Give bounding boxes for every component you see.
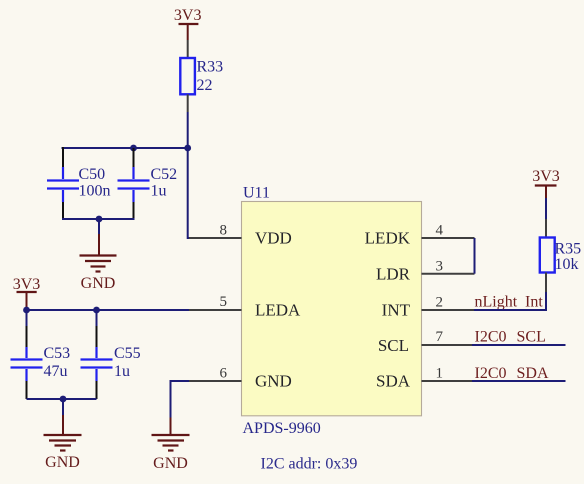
pin 4 LEDK line <box>422 237 475 239</box>
svg-text:5: 5 <box>220 294 228 310</box>
svg-text:SCL: SCL <box>517 329 546 346</box>
svg-text:7: 7 <box>436 329 444 345</box>
svg-text:APDS-9960: APDS-9960 <box>243 420 321 437</box>
svg-text:GND: GND <box>255 372 292 391</box>
wire SCL <box>472 344 566 346</box>
svg-text:U11: U11 <box>243 185 270 202</box>
capacitor C55 <box>81 310 113 399</box>
wire LEDA rail <box>27 309 190 311</box>
wire 3V3 to R35 <box>545 198 547 219</box>
pin 3 LDR line <box>422 273 475 275</box>
wire bottom rail C53-C55 <box>27 398 97 400</box>
svg-text:SCL: SCL <box>378 336 409 355</box>
svg-text:SDA: SDA <box>376 372 411 391</box>
junction C55 top <box>93 307 100 314</box>
wire junction to GND <box>98 219 100 234</box>
wire bottom rail C50-C52 <box>63 218 134 219</box>
svg-text:VDD: VDD <box>255 229 292 248</box>
svg-text:nLight: nLight <box>475 294 518 311</box>
svg-text:47u: 47u <box>44 363 68 380</box>
wire SDA <box>472 380 566 382</box>
capacitor C52 <box>118 148 150 220</box>
svg-text:10k: 10k <box>555 256 579 273</box>
pin 6 GND line <box>189 380 242 382</box>
svg-text:3V3: 3V3 <box>532 168 560 185</box>
svg-text:LDR: LDR <box>376 265 411 284</box>
pin 8 VDD line <box>189 237 242 239</box>
capacitor C53 <box>11 310 43 399</box>
svg-text:GND: GND <box>45 454 80 471</box>
svg-text:22: 22 <box>197 77 213 94</box>
junction R33 node <box>184 145 191 152</box>
ground GND (under C50/C52) <box>80 234 117 292</box>
svg-text:C50: C50 <box>79 166 106 183</box>
wire junction to GND left <box>62 399 64 415</box>
svg-text:C52: C52 <box>151 166 178 183</box>
pin 1 SDA line <box>422 380 473 382</box>
svg-text:C55: C55 <box>114 345 141 362</box>
svg-text:6: 6 <box>220 366 228 382</box>
wire pin6 to GND <box>171 381 190 418</box>
svg-text:8: 8 <box>220 223 228 239</box>
power 3V3 (top) <box>174 7 202 40</box>
svg-text:3V3: 3V3 <box>174 7 202 24</box>
capacitor C50 <box>47 147 79 220</box>
svg-text:4: 4 <box>436 223 444 239</box>
svg-text:3: 3 <box>436 259 444 275</box>
svg-text:INT: INT <box>382 301 411 320</box>
svg-text:I2C0: I2C0 <box>475 365 507 382</box>
wire INT to R35 <box>474 292 546 310</box>
ground GND (bottom left) <box>44 415 82 471</box>
wire R33 to node <box>187 112 189 148</box>
svg-text:LEDK: LEDK <box>365 229 411 248</box>
svg-text:2: 2 <box>436 295 444 311</box>
power 3V3 (left) <box>13 276 41 308</box>
svg-text:Int: Int <box>525 294 543 311</box>
ground GND (pin 6) <box>152 418 190 473</box>
svg-text:I2C addr: 0x39: I2C addr: 0x39 <box>261 456 358 473</box>
junction GND tap left <box>60 396 67 403</box>
svg-text:SDA: SDA <box>517 365 549 382</box>
svg-text:1u: 1u <box>151 183 167 200</box>
svg-text:LEDA: LEDA <box>255 301 301 320</box>
svg-text:GND: GND <box>153 455 188 472</box>
svg-text:3V3: 3V3 <box>13 276 41 293</box>
junction 3V3/C53 <box>23 307 30 314</box>
wire node to pin VDD <box>188 148 189 238</box>
svg-text:GND: GND <box>81 275 116 292</box>
svg-text:100n: 100n <box>79 183 111 200</box>
svg-text:1u: 1u <box>114 363 130 380</box>
IC U11 APDS-9960 <box>242 202 422 416</box>
pin 5 LEDA line <box>189 309 242 311</box>
wire top rail C50-C52-R33 <box>62 147 188 149</box>
svg-text:R35: R35 <box>555 241 582 258</box>
wire LEDK to LDR <box>474 238 476 274</box>
pin 7 SCL line <box>422 344 473 346</box>
junction C52 top <box>130 145 137 152</box>
svg-text:1: 1 <box>436 366 444 382</box>
svg-text:R33: R33 <box>197 59 224 76</box>
pin 2 INT line <box>422 309 475 311</box>
svg-text:I2C0: I2C0 <box>475 329 507 346</box>
junction GND tap <box>96 216 103 223</box>
resistor R33 <box>180 40 195 112</box>
power 3V3 (right) <box>532 168 560 198</box>
svg-text:C53: C53 <box>44 345 71 362</box>
resistor R35 <box>540 219 555 292</box>
